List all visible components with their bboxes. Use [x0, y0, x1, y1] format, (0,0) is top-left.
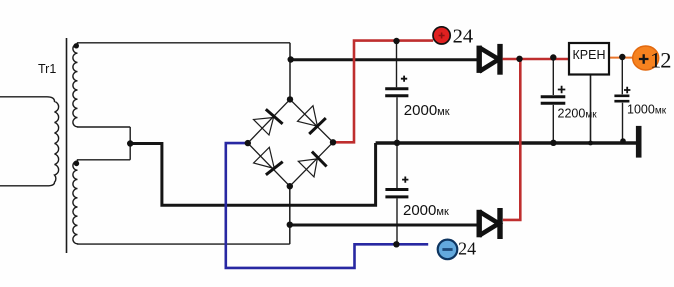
svg-text:12: 12 — [650, 48, 671, 73]
svg-text:24: 24 — [453, 26, 474, 48]
svg-text:КРЕН: КРЕН — [573, 48, 606, 62]
svg-text:2000мк: 2000мк — [403, 202, 449, 219]
svg-text:24: 24 — [458, 239, 476, 259]
svg-text:2000мк: 2000мк — [404, 102, 450, 119]
svg-text:Tr1: Tr1 — [38, 62, 56, 76]
svg-text:2200мк: 2200мк — [558, 107, 598, 121]
svg-text:1000мк: 1000мк — [627, 103, 667, 117]
